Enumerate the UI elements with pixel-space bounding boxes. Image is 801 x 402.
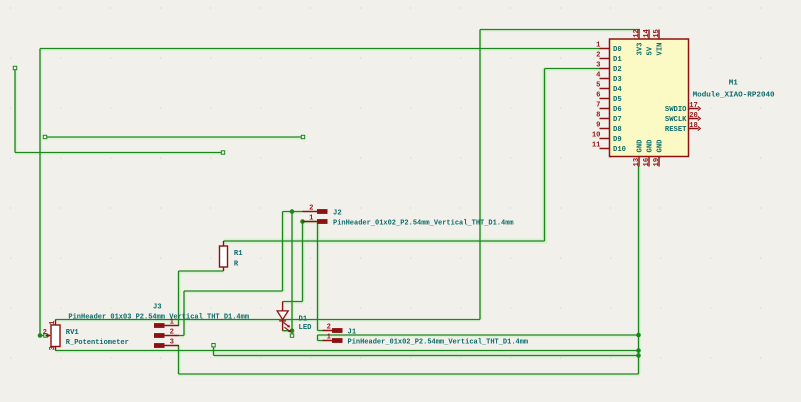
svg-text:J3: J3 <box>153 304 162 312</box>
svg-text:13: 13 <box>633 158 641 167</box>
svg-text:PinHeader_01x02_P2.54mm_Vertic: PinHeader_01x02_P2.54mm_Vertical_THT_D1.… <box>348 339 529 347</box>
svg-text:9: 9 <box>596 122 600 130</box>
svg-text:2: 2 <box>170 329 174 337</box>
svg-text:D0: D0 <box>613 46 622 54</box>
svg-text:R1: R1 <box>234 250 243 258</box>
svg-text:RV1: RV1 <box>66 329 80 337</box>
svg-text:15: 15 <box>653 29 661 38</box>
svg-text:1: 1 <box>309 215 314 223</box>
svg-text:GND: GND <box>657 139 665 153</box>
svg-text:M1: M1 <box>729 80 739 88</box>
svg-text:D5: D5 <box>613 96 622 104</box>
svg-text:D3: D3 <box>613 76 622 84</box>
svg-text:J1: J1 <box>348 329 357 337</box>
svg-text:GND: GND <box>637 139 645 153</box>
svg-text:D2: D2 <box>613 66 622 74</box>
svg-text:4: 4 <box>596 72 601 80</box>
svg-text:D8: D8 <box>613 126 622 134</box>
svg-text:2: 2 <box>327 324 331 332</box>
svg-text:PinHeader_01x02_P2.54mm_Vertic: PinHeader_01x02_P2.54mm_Vertical_THT_D1.… <box>333 219 514 227</box>
svg-text:2: 2 <box>309 205 313 213</box>
svg-text:GND: GND <box>647 139 655 153</box>
svg-text:D1: D1 <box>299 316 308 324</box>
svg-text:20: 20 <box>689 112 698 120</box>
svg-text:17: 17 <box>689 102 698 110</box>
svg-text:1: 1 <box>327 334 332 342</box>
svg-text:D10: D10 <box>613 146 626 154</box>
svg-text:SWDIO: SWDIO <box>665 106 687 114</box>
svg-text:R_Potentiometer: R_Potentiometer <box>66 339 129 347</box>
svg-text:Module_XIAO-RP2040: Module_XIAO-RP2040 <box>693 91 775 99</box>
svg-text:5V: 5V <box>647 46 655 55</box>
svg-text:1: 1 <box>49 320 57 325</box>
svg-text:8: 8 <box>596 112 600 120</box>
svg-text:3V3: 3V3 <box>637 43 645 56</box>
svg-text:3: 3 <box>596 62 600 70</box>
svg-text:2: 2 <box>596 52 600 60</box>
svg-text:10: 10 <box>592 132 601 140</box>
svg-text:3: 3 <box>49 346 57 350</box>
svg-text:LED: LED <box>299 324 313 332</box>
svg-text:16: 16 <box>643 158 651 167</box>
svg-text:R: R <box>234 260 239 268</box>
svg-text:D4: D4 <box>613 86 622 94</box>
svg-text:D9: D9 <box>613 136 622 144</box>
svg-text:D1: D1 <box>613 56 622 64</box>
svg-text:SWCLK: SWCLK <box>665 116 687 124</box>
svg-text:3: 3 <box>170 339 174 347</box>
svg-text:11: 11 <box>592 142 601 150</box>
svg-text:D6: D6 <box>613 106 622 114</box>
svg-text:6: 6 <box>596 92 600 100</box>
svg-text:VIN: VIN <box>657 43 665 56</box>
svg-text:7: 7 <box>596 102 600 110</box>
svg-text:18: 18 <box>689 122 698 130</box>
svg-text:D7: D7 <box>613 116 622 124</box>
svg-text:19: 19 <box>653 158 661 167</box>
svg-text:12: 12 <box>633 29 641 38</box>
svg-text:5: 5 <box>596 82 600 90</box>
svg-text:2: 2 <box>43 329 47 337</box>
svg-text:J2: J2 <box>333 209 342 217</box>
svg-text:RESET: RESET <box>665 126 687 134</box>
svg-text:14: 14 <box>643 28 651 37</box>
svg-text:1: 1 <box>596 42 601 50</box>
svg-text:PinHeader_01x03_P2.54mm_Vertic: PinHeader_01x03_P2.54mm_Vertical_THT_D1.… <box>68 313 249 321</box>
